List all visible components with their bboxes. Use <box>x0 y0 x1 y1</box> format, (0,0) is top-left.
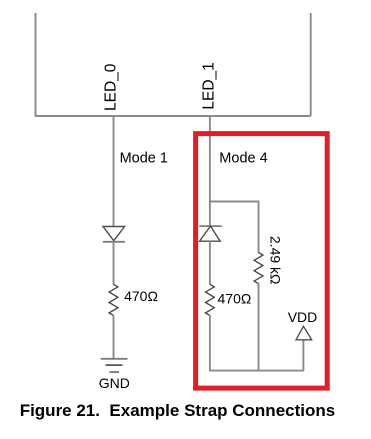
device box outline <box>35 13 311 116</box>
resistor R1 470 ohm <box>109 284 118 315</box>
svg-text:470Ω: 470Ω <box>218 290 252 306</box>
diode D1 (LED_0, cathode down) <box>103 227 125 242</box>
VDD power symbol triangle <box>296 326 312 340</box>
resistor R3 2.49 kohm <box>254 253 263 284</box>
ground symbol <box>101 359 128 372</box>
wire: D1 to R1 <box>113 242 115 284</box>
wire: R2 to bottom rail <box>210 315 304 370</box>
svg-text:Figure 21. Example Strap Conn: Figure 21. Example Strap Connections <box>20 401 336 420</box>
diode D2 (LED_1, cathode up) <box>199 226 222 241</box>
resistor R2 470 ohm <box>205 284 214 315</box>
red highlight box around Mode 4 <box>196 134 328 389</box>
wire: LED_0 pin drop <box>113 116 115 227</box>
svg-text:Mode 1: Mode 1 <box>120 151 168 167</box>
svg-text:GND: GND <box>99 375 130 391</box>
svg-text:470Ω: 470Ω <box>124 288 158 304</box>
wire: rail up to VDD symbol <box>302 340 304 371</box>
wire: box bottom horizontal <box>35 115 311 117</box>
wire: D2 to R2 <box>209 241 211 284</box>
wire: branch to parallel resistor <box>210 202 259 253</box>
svg-text:2.49 kΩ: 2.49 kΩ <box>268 236 284 285</box>
svg-text:Mode 4: Mode 4 <box>219 151 267 167</box>
wire: R1 to ground <box>113 315 115 359</box>
wire: box right vertical <box>310 13 312 116</box>
wire: box left vertical <box>35 13 37 116</box>
svg-text:VDD: VDD <box>288 309 318 325</box>
svg-text:LED_1: LED_1 <box>200 62 217 109</box>
wire: LED_1 pin drop <box>209 116 211 226</box>
wire: R3 to bottom rail <box>258 284 260 371</box>
svg-text:LED_0: LED_0 <box>103 63 120 111</box>
